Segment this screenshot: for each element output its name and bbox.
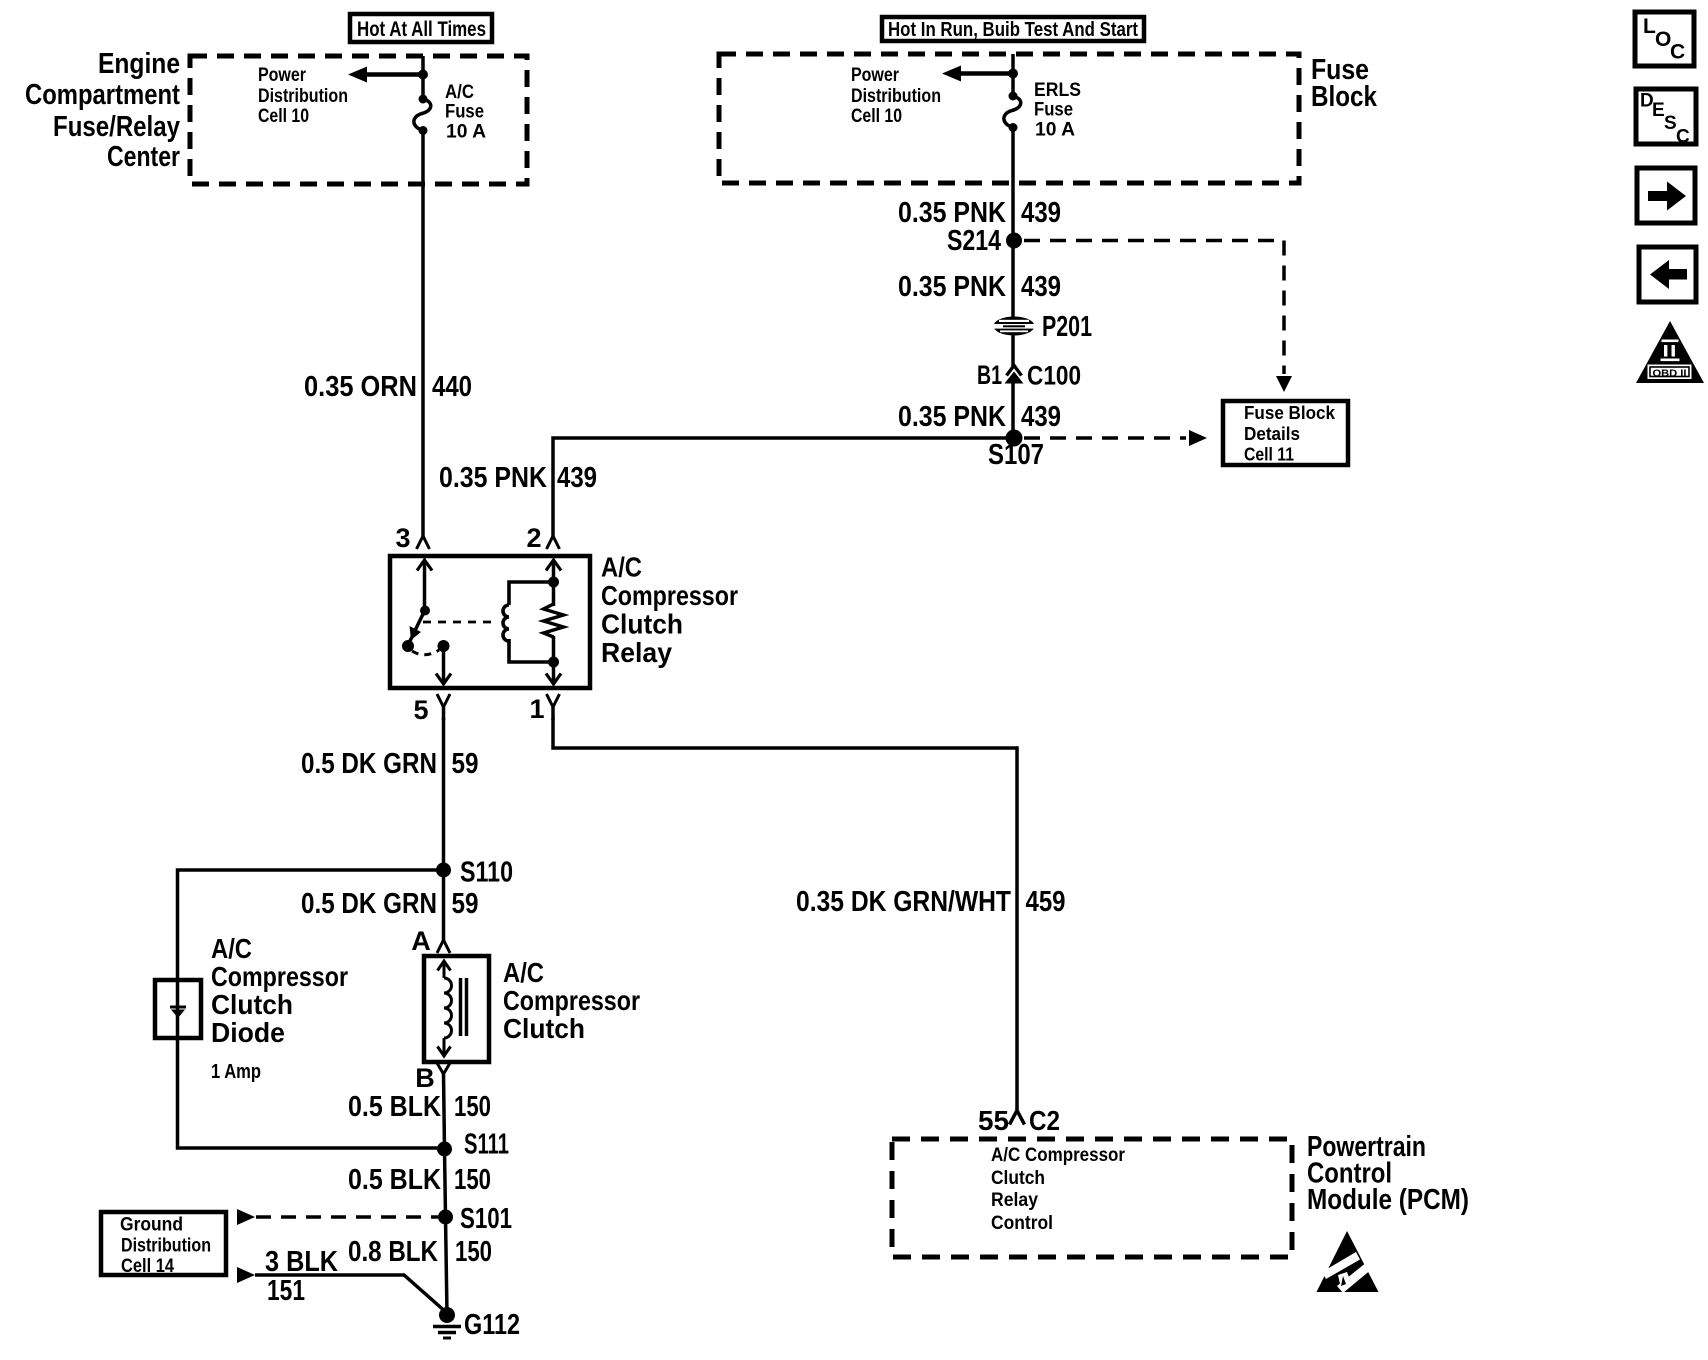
wire: S111 to S101 bbox=[445, 1149, 446, 1217]
svg-text:S111: S111 bbox=[464, 1129, 509, 1161]
pin 2 terminal bbox=[526, 523, 559, 553]
svg-text:Clutch: Clutch bbox=[601, 609, 683, 640]
svg-text:Compressor: Compressor bbox=[503, 985, 640, 1016]
svg-text:S110: S110 bbox=[460, 857, 513, 889]
svg-text:ERLS: ERLS bbox=[1034, 80, 1081, 101]
svg-text:Cell 10: Cell 10 bbox=[851, 106, 902, 127]
label: 0.35 PNK 439 (1) bbox=[898, 197, 1061, 229]
junction dot at A/C fuse top bbox=[418, 70, 428, 80]
svg-text:0.35 PNK: 0.35 PNK bbox=[898, 401, 1006, 433]
svg-text:0.35 PNK: 0.35 PNK bbox=[439, 462, 547, 494]
wire: ERLS fuse to S214 bbox=[1011, 128, 1015, 241]
pin 5 terminal bbox=[413, 694, 450, 725]
svg-text:0.5 DK GRN: 0.5 DK GRN bbox=[301, 888, 437, 920]
svg-text:S107: S107 bbox=[988, 439, 1044, 471]
relay K: A/C Compressor Clutch Relay box bbox=[390, 556, 590, 688]
svg-text:P201: P201 bbox=[1042, 311, 1092, 343]
svg-text:Fuse Block: Fuse Block bbox=[1244, 402, 1336, 423]
svg-text:0.35 PNK: 0.35 PNK bbox=[898, 271, 1006, 303]
label: ERLS Fuse 10 A bbox=[1034, 80, 1081, 141]
label: Powertrain Control Module (PCM) bbox=[1307, 1131, 1469, 1216]
svg-text:Diode: Diode bbox=[211, 1017, 285, 1048]
label: A/C Fuse 10 A bbox=[445, 82, 486, 143]
svg-text:Compartment: Compartment bbox=[25, 79, 180, 111]
svg-text:C2: C2 bbox=[1029, 1105, 1060, 1136]
fuse: A/C Fuse 10 A bbox=[414, 95, 431, 136]
pin 3 terminal bbox=[395, 523, 429, 553]
svg-text:151: 151 bbox=[267, 1275, 305, 1307]
wire: fuse to relay pin 3 bbox=[421, 131, 425, 538]
label: 0.35 PNK 439 (3) bbox=[898, 401, 1061, 433]
icon: DESC box bbox=[1636, 89, 1696, 148]
connector B1 C100 bbox=[1005, 366, 1024, 384]
pin A terminal bbox=[411, 926, 450, 956]
box: Ground Distribution Cell 14 bbox=[101, 1212, 226, 1277]
svg-text:1: 1 bbox=[529, 694, 544, 724]
svg-text:Cell 11: Cell 11 bbox=[1244, 444, 1294, 465]
label: Engine Compartment Fuse/Relay Center bbox=[25, 48, 180, 173]
svg-text:G112: G112 bbox=[464, 1309, 520, 1341]
svg-text:OBD II: OBD II bbox=[1653, 368, 1687, 380]
wire: P201 to C100 bbox=[1011, 335, 1015, 366]
svg-text:Cell 10: Cell 10 bbox=[258, 106, 309, 127]
svg-text:Control: Control bbox=[991, 1213, 1053, 1234]
dashed box: Fuse Block bbox=[719, 54, 1299, 183]
svg-text:Hot In Run, Buib Test And Star: Hot In Run, Buib Test And Start bbox=[888, 19, 1138, 41]
svg-text:Cell 14: Cell 14 bbox=[121, 1256, 174, 1277]
svg-text:0.35 DK GRN/WHT: 0.35 DK GRN/WHT bbox=[796, 886, 1011, 918]
svg-text:C100: C100 bbox=[1027, 361, 1081, 391]
svg-text:A: A bbox=[411, 926, 431, 956]
header box: Hot At All Times bbox=[350, 14, 492, 42]
svg-text:Power: Power bbox=[851, 65, 899, 86]
svg-text:Center: Center bbox=[107, 141, 180, 173]
relay coil bbox=[503, 582, 554, 662]
svg-text:Compressor: Compressor bbox=[601, 580, 738, 611]
label: 0.35 ORN 440 bbox=[304, 371, 472, 403]
label: 0.8 BLK 150 bbox=[348, 1236, 492, 1268]
svg-text:S101: S101 bbox=[460, 1203, 512, 1235]
clutch coil and plates bbox=[438, 961, 467, 1056]
svg-text:Block: Block bbox=[1311, 81, 1378, 113]
svg-text:2: 2 bbox=[526, 523, 541, 553]
wire: S214 to P201 bbox=[1011, 240, 1015, 317]
arrowhead right into Fuse Block Details bbox=[1189, 430, 1207, 446]
svg-text:Compressor: Compressor bbox=[211, 961, 348, 992]
dashed wire: S214 to Fuse Block Details bbox=[1024, 241, 1284, 375]
fuse: ERLS Fuse 10 A bbox=[1004, 92, 1021, 133]
svg-text:5: 5 bbox=[413, 695, 428, 725]
relay switch arm (pins 3-5) bbox=[402, 560, 451, 684]
svg-text:439: 439 bbox=[1021, 271, 1061, 303]
icon: LOC box bbox=[1635, 12, 1694, 66]
node S110 bbox=[436, 863, 451, 878]
label: 0.35 PNK 439 (2) bbox=[898, 271, 1061, 303]
svg-text:150: 150 bbox=[454, 1164, 491, 1196]
wire: S101 to G112 bbox=[446, 1217, 448, 1314]
svg-text:Distribution: Distribution bbox=[121, 1236, 211, 1257]
svg-text:Distribution: Distribution bbox=[258, 86, 348, 107]
svg-text:Module (PCM): Module (PCM) bbox=[1307, 1184, 1469, 1216]
svg-text:439: 439 bbox=[1021, 401, 1061, 433]
pin 1 terminal bbox=[529, 694, 559, 724]
wire: pin B to S111 bbox=[444, 1074, 445, 1149]
label: Fuse Block bbox=[1311, 54, 1378, 113]
wire: S107 left to relay pin 2 drop bbox=[553, 438, 1013, 537]
svg-text:Relay: Relay bbox=[991, 1190, 1038, 1211]
svg-text:439: 439 bbox=[1021, 197, 1061, 229]
svg-text:Engine: Engine bbox=[98, 48, 180, 80]
svg-text:C: C bbox=[1676, 127, 1690, 148]
wire: 3 BLK 151 to G112 bbox=[255, 1275, 447, 1313]
label: 0.5 DK GRN 59 (1) bbox=[301, 748, 479, 780]
label: 3 BLK 151 bbox=[265, 1246, 338, 1307]
diode D: A/C Compressor Clutch Diode box bbox=[155, 980, 201, 1038]
svg-text:3 BLK: 3 BLK bbox=[265, 1246, 338, 1278]
svg-text:Relay: Relay bbox=[601, 637, 672, 668]
label: A/C Compressor Clutch bbox=[503, 957, 640, 1044]
node S101 bbox=[438, 1210, 453, 1225]
junction dot at ERLS fuse top bbox=[1008, 69, 1018, 79]
wire: pin 5 to S110 bbox=[442, 718, 446, 870]
icon: forward arrow box bbox=[1637, 168, 1695, 223]
label: Power Distribution Cell 10 (right) bbox=[851, 65, 941, 127]
svg-text:A/C: A/C bbox=[503, 957, 544, 988]
svg-text:A/C: A/C bbox=[601, 552, 642, 583]
label: 0.5 BLK 150 (1) bbox=[348, 1091, 491, 1123]
label: 0.35 DK GRN/WHT 459 bbox=[796, 886, 1066, 918]
icon: back arrow box bbox=[1639, 247, 1696, 302]
svg-text:B1: B1 bbox=[977, 360, 1002, 390]
label: 0.35 PNK 439 (relay pin 2) bbox=[439, 462, 597, 494]
svg-text:10 A: 10 A bbox=[446, 122, 486, 143]
ground G112 bbox=[433, 1307, 461, 1338]
label: A/C Compressor Clutch Relay bbox=[601, 552, 738, 669]
arrow to Power Distribution (right) bbox=[942, 66, 1013, 82]
label: A/C Compressor Clutch Relay Control bbox=[991, 1145, 1126, 1234]
relay actuation dashed link bbox=[423, 621, 495, 624]
relay pin2-pin1 internal line bbox=[546, 560, 561, 684]
svg-text:E: E bbox=[1652, 100, 1665, 121]
svg-text:Clutch: Clutch bbox=[503, 1013, 585, 1044]
svg-text:B: B bbox=[415, 1063, 435, 1093]
svg-text:Clutch: Clutch bbox=[991, 1168, 1045, 1189]
svg-text:0.35 ORN: 0.35 ORN bbox=[304, 371, 417, 403]
label: 0.5 BLK 150 (2) bbox=[348, 1164, 491, 1196]
wire: top dashed edge to ERLS fuse bbox=[1011, 54, 1015, 96]
arrowhead down into Fuse Block Details bbox=[1276, 376, 1292, 392]
node S214 bbox=[1006, 233, 1022, 249]
wire: S110 to clutch pin A bbox=[442, 870, 446, 942]
svg-text:10 A: 10 A bbox=[1035, 120, 1075, 141]
ESD warning symbol bbox=[1317, 1231, 1379, 1293]
svg-text:Fuse/Relay: Fuse/Relay bbox=[53, 111, 180, 143]
relay resistor bbox=[544, 604, 564, 637]
diode symbol bbox=[170, 1007, 186, 1018]
svg-text:Details: Details bbox=[1244, 423, 1300, 444]
svg-text:440: 440 bbox=[432, 371, 472, 403]
arrowhead (ground distribution, lower) bbox=[237, 1267, 255, 1283]
box: Fuse Block Details Cell 11 bbox=[1223, 401, 1348, 465]
svg-text:S: S bbox=[1664, 113, 1677, 134]
label: A/C Compressor Clutch Diode 1 Amp bbox=[211, 933, 348, 1048]
svg-text:150: 150 bbox=[454, 1091, 491, 1123]
svg-text:1 Amp: 1 Amp bbox=[211, 1061, 261, 1083]
svg-text:55: 55 bbox=[978, 1105, 1009, 1136]
node S111 bbox=[437, 1142, 452, 1157]
dashed box: Powertrain Control Module (PCM) bbox=[892, 1139, 1292, 1257]
svg-text:S214: S214 bbox=[947, 225, 1001, 257]
svg-text:150: 150 bbox=[455, 1236, 492, 1268]
arrowhead (ground distribution, upper) bbox=[237, 1209, 255, 1225]
svg-text:Hot At All Times: Hot At All Times bbox=[357, 18, 486, 41]
svg-text:0.5 DK GRN: 0.5 DK GRN bbox=[301, 748, 437, 780]
wire: C100 to S107 bbox=[1011, 383, 1015, 438]
svg-text:Ground: Ground bbox=[120, 1215, 183, 1236]
svg-text:0.5 BLK: 0.5 BLK bbox=[348, 1164, 441, 1196]
svg-text:59: 59 bbox=[452, 748, 479, 780]
svg-text:A/C Compressor: A/C Compressor bbox=[991, 1145, 1126, 1166]
svg-text:439: 439 bbox=[557, 462, 597, 494]
icon: OBD II triangle bbox=[1636, 321, 1704, 383]
svg-text:59: 59 bbox=[452, 888, 479, 920]
svg-text:O: O bbox=[1655, 28, 1671, 51]
svg-text:Distribution: Distribution bbox=[851, 86, 941, 107]
svg-text:A/C: A/C bbox=[445, 82, 474, 103]
node S107 bbox=[1006, 430, 1023, 447]
svg-text:C: C bbox=[1670, 41, 1685, 64]
header box: Hot In Run, Buib Test And Start bbox=[882, 17, 1144, 41]
svg-text:3: 3 bbox=[395, 523, 410, 553]
pin B terminal bbox=[415, 1063, 450, 1093]
dashed wire: S101 to ground distribution arrow bbox=[256, 1215, 438, 1219]
wire: S110 branch to diode (left loop) bbox=[178, 870, 445, 1148]
svg-text:0.5 BLK: 0.5 BLK bbox=[348, 1091, 441, 1123]
label: Power Distribution Cell 10 (left) bbox=[258, 65, 348, 127]
connector P201 bbox=[994, 317, 1035, 336]
svg-text:Power: Power bbox=[258, 65, 306, 86]
svg-text:459: 459 bbox=[1026, 886, 1066, 918]
svg-text:A/C: A/C bbox=[211, 933, 252, 964]
svg-text:Fuse: Fuse bbox=[1034, 100, 1073, 121]
svg-text:Clutch: Clutch bbox=[211, 989, 293, 1020]
label: 0.5 DK GRN 59 (2) bbox=[301, 888, 479, 920]
svg-text:Fuse: Fuse bbox=[445, 102, 484, 123]
pin 55 C2 terminal bbox=[978, 1105, 1060, 1136]
wire: pin 1 to PCM bbox=[553, 718, 1017, 1110]
dashed box: Engine Compartment Fuse/Relay Center bbox=[190, 56, 527, 184]
arrow to Power Distribution bbox=[348, 67, 423, 83]
wire: top dashed edge to fuse bbox=[421, 56, 425, 98]
dashed wire: S107 to Fuse Block Details bbox=[1024, 436, 1186, 440]
svg-text:0.8 BLK: 0.8 BLK bbox=[348, 1236, 438, 1268]
clutch M: A/C Compressor Clutch box bbox=[424, 956, 489, 1062]
